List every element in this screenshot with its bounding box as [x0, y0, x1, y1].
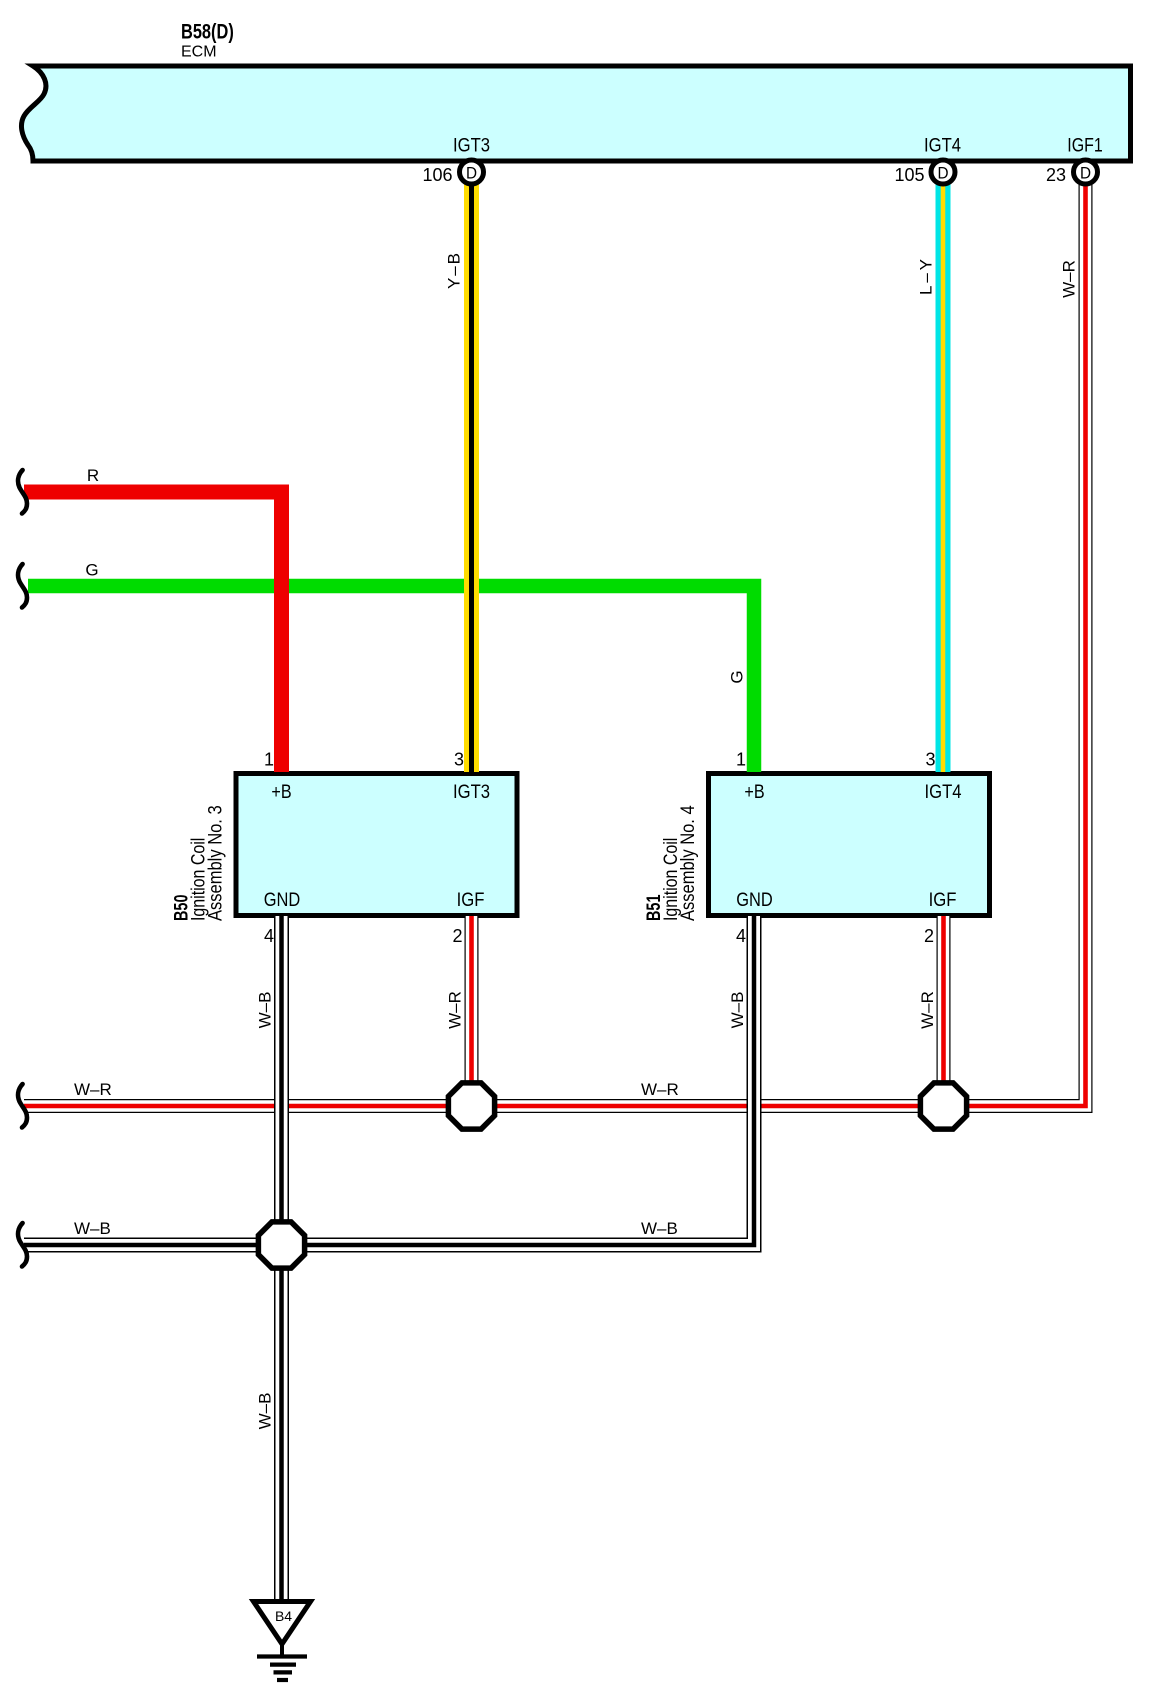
svg-text:4: 4 — [264, 926, 274, 946]
svg-text:B58(D): B58(D) — [181, 20, 234, 43]
junction octagon on W-R bus below B51 — [920, 1083, 966, 1129]
break squiggle on wire G — [18, 564, 27, 608]
svg-text:W–B: W–B — [256, 992, 275, 1029]
pin name IGF of B51 — [929, 889, 957, 910]
svg-text:23: 23 — [1046, 165, 1066, 185]
svg-text:W–R: W–R — [641, 1080, 679, 1099]
side label B50 — [171, 895, 192, 921]
ground bar 3 — [274, 1670, 293, 1674]
wire W-R drop from B51 IGF pin 2 to junction — [937, 916, 951, 1106]
pin name IGF1 on ECM — [1067, 134, 1102, 156]
wire W-R drop from B50 IGF pin 2 to junction — [465, 916, 479, 1106]
svg-text:IGT3: IGT3 — [453, 781, 490, 802]
break squiggle on wire R — [18, 470, 27, 514]
svg-text:W–R: W–R — [446, 991, 465, 1029]
ground stem — [280, 1644, 284, 1657]
pin name GND of B51 — [736, 889, 773, 910]
svg-text:W–B: W–B — [641, 1219, 678, 1238]
wire Y-B from ECM IGT3 to B50 pin 3 — [464, 184, 479, 772]
ground symbol B4 triangle — [254, 1602, 311, 1645]
svg-text:D: D — [1080, 164, 1091, 183]
connector pin circle 106 (IGT3) — [460, 160, 484, 184]
svg-text:W–B: W–B — [728, 992, 747, 1029]
side label Ignition Coil (B51) — [660, 838, 682, 921]
svg-text:GND: GND — [264, 889, 301, 910]
side label Ignition Coil (B50) — [187, 838, 209, 921]
svg-text:+B: +B — [744, 781, 764, 803]
connector pin circle 23 (IGF1) — [1074, 160, 1098, 184]
wire W-R bus from left break to ECM IGF1 pin 23 — [24, 184, 1086, 1106]
pin name IGT3 of B50 — [453, 781, 490, 802]
side label Assembly No. 4 (B51) — [677, 805, 698, 921]
svg-text:L–Y: L–Y — [917, 259, 936, 295]
pin name GND of B50 — [264, 889, 301, 910]
svg-text:W–R: W–R — [918, 991, 937, 1029]
pin name IGT4 on ECM — [924, 134, 961, 155]
svg-text:3: 3 — [454, 750, 464, 770]
svg-text:ECM: ECM — [181, 44, 217, 61]
svg-text:G: G — [85, 561, 98, 580]
svg-text:106: 106 — [422, 165, 452, 185]
svg-text:GND: GND — [736, 889, 773, 910]
svg-text:4: 4 — [736, 926, 746, 946]
connector pin circle 105 (IGT4) — [931, 160, 955, 184]
svg-text:IGT4: IGT4 — [924, 781, 961, 802]
ignition coil assembly no.4 box B51 — [709, 774, 990, 916]
wire G (green) from left break to B51 pin 1 — [28, 586, 754, 772]
svg-text:1: 1 — [264, 750, 274, 770]
svg-text:1: 1 — [736, 750, 746, 770]
junction octagon on W-R bus below B50 — [448, 1083, 494, 1129]
label B58(D) — [181, 20, 234, 43]
svg-text:W–B: W–B — [256, 1393, 275, 1430]
svg-text:W–R: W–R — [1060, 260, 1079, 298]
svg-text:W–B: W–B — [74, 1219, 111, 1238]
svg-text:105: 105 — [894, 165, 924, 185]
pin name +B of B50 — [271, 781, 291, 803]
break squiggle on W-B bus — [18, 1223, 27, 1267]
svg-text:D: D — [466, 164, 477, 183]
pin name IGF of B50 — [457, 889, 485, 910]
side label B51 — [643, 895, 664, 921]
svg-text:IGT4: IGT4 — [924, 134, 961, 155]
svg-text:3: 3 — [925, 750, 935, 770]
svg-text:IGT3: IGT3 — [453, 134, 490, 155]
svg-text:2: 2 — [452, 926, 462, 946]
pin name IGT4 of B51 — [924, 781, 961, 802]
ECM connector block B58(D) — [21, 66, 1130, 161]
svg-text:IGF1: IGF1 — [1067, 134, 1102, 156]
pin name IGT3 on ECM — [453, 134, 490, 155]
ground bar 4 — [277, 1678, 288, 1682]
wire L-Y from ECM IGT4 to B51 pin 3 — [936, 184, 951, 772]
junction octagon on W-B bus — [258, 1222, 304, 1268]
svg-text:W–R: W–R — [74, 1080, 112, 1099]
svg-text:2: 2 — [924, 926, 934, 946]
svg-text:D: D — [937, 164, 948, 183]
svg-text:R: R — [87, 466, 99, 485]
side label Assembly No. 3 (B50) — [204, 805, 225, 921]
svg-text:+B: +B — [271, 781, 291, 803]
svg-text:IGF: IGF — [457, 889, 485, 910]
pin name +B of B51 — [744, 781, 764, 803]
wire W-B from B50 GND pin 4 to ground B4 — [274, 916, 289, 1601]
svg-text:B4: B4 — [275, 1608, 292, 1624]
svg-text:G: G — [728, 670, 747, 683]
svg-text:IGF: IGF — [929, 889, 957, 910]
svg-text:Assembly No. 3: Assembly No. 3 — [204, 805, 225, 921]
break squiggle on W-R bus — [18, 1084, 27, 1128]
ground bar 1 — [257, 1654, 307, 1658]
svg-text:Y–B: Y–B — [445, 253, 464, 289]
wire R (red) from left break to B50 pin 1 — [24, 492, 282, 772]
wire W-B bus from left break to B51 GND pin 4 — [24, 916, 754, 1245]
svg-text:Assembly No. 4: Assembly No. 4 — [677, 805, 698, 921]
ignition coil assembly no.3 box B50 — [236, 774, 517, 916]
ground bar 2 — [270, 1662, 296, 1666]
